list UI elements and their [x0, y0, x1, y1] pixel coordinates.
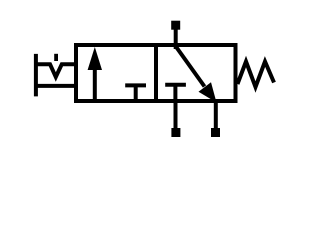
- return spring: [238, 62, 275, 88]
- actuator bottom link: [36, 84, 78, 88]
- blocked port T left box: [125, 85, 146, 101]
- actuator top link with detent notch: [36, 64, 78, 77]
- port 3 stub bottom right: [214, 101, 218, 129]
- port 3 terminal square: [211, 128, 220, 137]
- port 2 stub top: [174, 29, 178, 49]
- port 1 terminal square: [171, 128, 180, 137]
- position divider: [154, 45, 158, 101]
- detent pin: [54, 54, 58, 61]
- manual actuator bar: [34, 54, 38, 97]
- port 2 terminal square: [171, 21, 180, 30]
- flow arrow left box (1 to 2): [88, 47, 102, 101]
- blocked port T right box: [165, 85, 186, 101]
- port 1 stub bottom left: [174, 101, 178, 129]
- valve body outline: [76, 45, 236, 101]
- flow arrow right box (2 to 3 diagonal): [176, 46, 217, 103]
